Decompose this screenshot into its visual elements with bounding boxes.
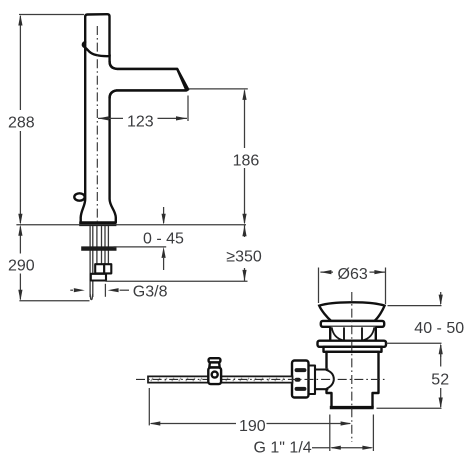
dim 123 <box>98 96 188 131</box>
band3 <box>324 347 382 352</box>
main body <box>327 352 379 408</box>
tailpipe bottom thick <box>330 406 374 409</box>
horizontal centerline <box>136 378 386 380</box>
186 ref line from spout tip <box>189 88 248 90</box>
dim >=350 <box>226 225 262 281</box>
dim 186 <box>233 89 260 225</box>
pull knob <box>74 193 84 200</box>
base bottom thick <box>79 222 116 227</box>
supply ref line <box>106 280 248 282</box>
dim G3/8 <box>70 284 167 301</box>
dim O63 <box>319 266 386 304</box>
dim 190 <box>149 388 351 435</box>
svg-text:288: 288 <box>8 114 35 131</box>
side pipe collar <box>308 366 315 395</box>
washer dark <box>81 246 116 250</box>
dim G 1" 1/4 <box>254 415 374 457</box>
flange1 <box>321 321 384 327</box>
svg-text:≥350: ≥350 <box>226 248 262 265</box>
under-deck shank and supply tubes <box>90 226 108 297</box>
svg-text:186: 186 <box>233 152 260 169</box>
drain vertical centerline <box>351 292 353 442</box>
side inlet pipe <box>315 368 329 389</box>
svg-text:52: 52 <box>431 371 449 388</box>
cap <box>319 302 384 321</box>
faucet centerline <box>96 26 98 222</box>
faucet handle <box>85 14 109 56</box>
mounting nut left <box>95 264 104 273</box>
pop-up rod <box>148 376 293 382</box>
ring section <box>330 327 376 341</box>
dim 290 <box>8 225 90 301</box>
mounting nut right <box>104 264 111 273</box>
dim 52 <box>377 345 450 409</box>
svg-text:123: 123 <box>127 113 154 130</box>
ext line top (handle top) <box>19 14 84 16</box>
deck line <box>16 224 246 226</box>
flange2 <box>318 341 387 347</box>
svg-text:G3/8: G3/8 <box>133 284 168 301</box>
coupling nut <box>292 361 309 398</box>
rod clamp <box>208 358 221 384</box>
dim 288 <box>8 15 35 225</box>
spout top edge + slope + tip <box>110 62 189 99</box>
dim 0-45 <box>114 207 185 270</box>
svg-text:Ø63: Ø63 <box>338 266 368 283</box>
svg-text:290: 290 <box>8 257 35 274</box>
G3/8 connector nut <box>91 274 106 281</box>
handle-body junction curve <box>83 42 110 56</box>
svg-text:0 - 45: 0 - 45 <box>143 230 184 247</box>
faucet body and spout <box>81 55 187 223</box>
svg-text:G 1" 1/4: G 1" 1/4 <box>254 439 312 456</box>
svg-text:190: 190 <box>239 418 266 435</box>
rounded tube tip <box>90 294 93 300</box>
dim 40-50 <box>387 292 465 357</box>
svg-text:40 - 50: 40 - 50 <box>414 320 464 337</box>
